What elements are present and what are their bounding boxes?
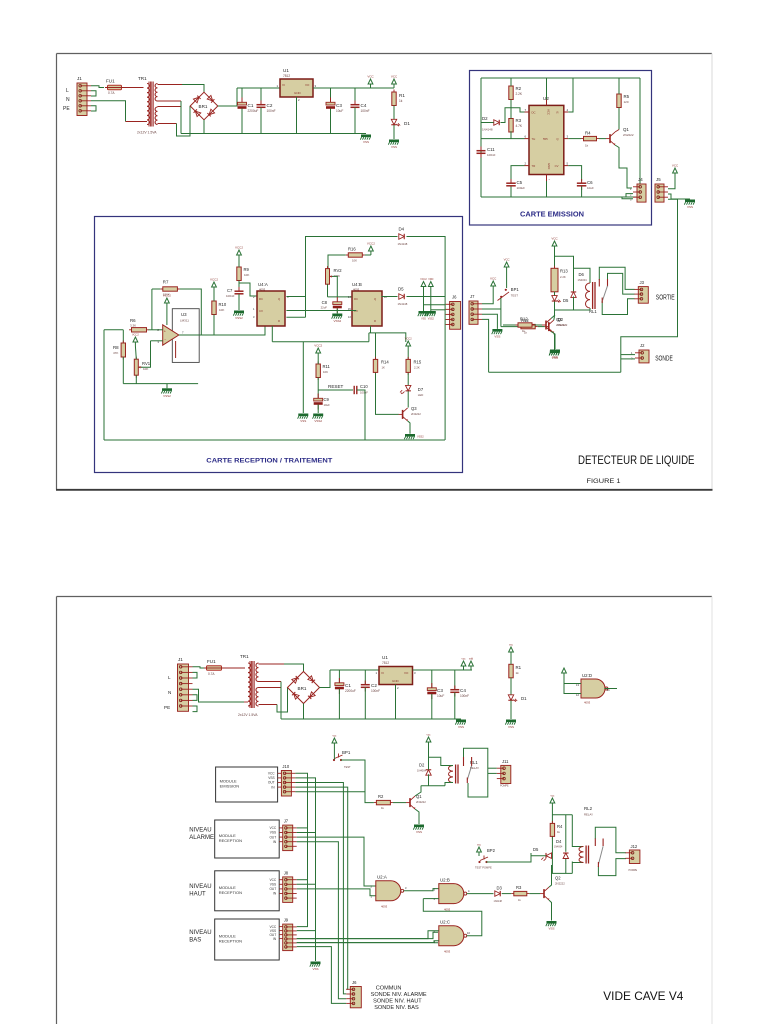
- svg-text:RV1: RV1: [142, 361, 151, 366]
- svg-text:FU1: FU1: [106, 79, 115, 84]
- svg-text:U2:C: U2:C: [440, 920, 450, 925]
- svg-text:J3: J3: [640, 280, 645, 285]
- svg-text:C11: C11: [487, 147, 495, 152]
- svg-text:R6: R6: [130, 318, 136, 323]
- svg-text:L: L: [66, 88, 69, 94]
- svg-text:VCC: VCC: [672, 164, 679, 168]
- svg-text:J9: J9: [284, 918, 289, 923]
- svg-text:VCC: VCC: [391, 75, 398, 79]
- svg-text:VSS: VSS: [270, 883, 276, 887]
- svg-text:VSS: VSS: [416, 830, 422, 834]
- svg-text:U1: U1: [283, 68, 289, 73]
- svg-text:RESET: RESET: [328, 384, 344, 389]
- svg-text:R11: R11: [323, 364, 331, 369]
- svg-text:22uF: 22uF: [321, 306, 328, 310]
- svg-text:R4: R4: [585, 131, 591, 136]
- svg-text:VCC2: VCC2: [235, 246, 243, 250]
- svg-text:VSS: VSS: [548, 927, 554, 931]
- svg-text:R15: R15: [414, 360, 422, 365]
- svg-text:Q3: Q3: [411, 406, 417, 411]
- svg-text:2.2K: 2.2K: [414, 366, 420, 370]
- svg-text:R1: R1: [399, 93, 405, 98]
- svg-text:D2: D2: [482, 116, 488, 121]
- svg-text:2N2222: 2N2222: [556, 323, 566, 327]
- svg-text:POMPE: POMPE: [500, 785, 509, 788]
- svg-text:C10: C10: [360, 384, 368, 389]
- svg-text:2200uF: 2200uF: [248, 109, 259, 113]
- svg-text:VSS: VSS: [687, 205, 693, 209]
- svg-text:VCC: VCC: [504, 258, 510, 262]
- svg-text:VIDE CAVE V4: VIDE CAVE V4: [603, 989, 683, 1003]
- svg-text:FU1: FU1: [207, 659, 216, 664]
- svg-text:VCC2: VCC2: [314, 344, 322, 348]
- svg-text:Q2: Q2: [555, 876, 561, 881]
- svg-text:TR1: TR1: [240, 654, 249, 659]
- svg-text:BR1: BR1: [298, 686, 307, 691]
- svg-text:VCC2: VCC2: [132, 333, 139, 337]
- svg-text:10K: 10K: [219, 308, 224, 312]
- svg-text:VCC2: VCC2: [420, 278, 427, 281]
- svg-text:J6: J6: [352, 980, 357, 985]
- svg-text:R4: R4: [557, 824, 563, 829]
- svg-text:OUT: OUT: [268, 781, 275, 785]
- svg-text:J1: J1: [178, 657, 183, 662]
- svg-text:VSS: VSS: [552, 355, 558, 359]
- svg-text:SONDE NIV. HAUT: SONDE NIV. HAUT: [373, 999, 422, 1005]
- svg-text:NIVEAU: NIVEAU: [189, 930, 211, 936]
- svg-text:DETECTEUR DE LIQUIDE: DETECTEUR DE LIQUIDE: [578, 453, 695, 467]
- svg-text:RECEPTION: RECEPTION: [219, 890, 242, 895]
- svg-text:VCC: VCC: [268, 772, 275, 776]
- svg-text:R7: R7: [163, 280, 169, 285]
- svg-text:7812: 7812: [283, 74, 290, 78]
- svg-text:D4: D4: [556, 839, 562, 844]
- svg-text:1N4004: 1N4004: [554, 846, 563, 849]
- svg-text:10uF: 10uF: [336, 109, 343, 113]
- svg-text:R12: R12: [520, 317, 528, 322]
- svg-text:J4: J4: [638, 177, 643, 182]
- svg-text:CV: CV: [555, 164, 559, 168]
- svg-text:C2: C2: [371, 683, 377, 688]
- svg-text:EMISSION: EMISSION: [220, 784, 240, 789]
- svg-text:R2: R2: [516, 86, 522, 91]
- svg-text:RELAY: RELAY: [584, 813, 593, 817]
- svg-text:J11: J11: [502, 759, 509, 764]
- svg-text:J1: J1: [77, 76, 82, 81]
- svg-text:CARTE EMISSION: CARTE EMISSION: [520, 210, 584, 219]
- svg-text:100uF: 100uF: [517, 186, 526, 190]
- svg-text:GND: GND: [294, 91, 302, 95]
- svg-text:1N4004: 1N4004: [417, 769, 427, 773]
- svg-text:C7: C7: [227, 288, 233, 293]
- svg-text:SONDE NIV. BAS: SONDE NIV. BAS: [374, 1005, 419, 1011]
- svg-text:VSS: VSS: [508, 725, 514, 729]
- svg-text:4093: 4093: [381, 905, 388, 909]
- svg-text:555: 555: [543, 137, 548, 141]
- svg-text:100nF: 100nF: [460, 694, 469, 698]
- svg-text:7812: 7812: [382, 661, 389, 665]
- svg-text:TEST: TEST: [344, 765, 351, 769]
- svg-text:VSS: VSS: [391, 145, 397, 149]
- svg-text:1N4004: 1N4004: [578, 278, 588, 282]
- svg-text:2N2222: 2N2222: [555, 882, 565, 886]
- svg-text:4.7K: 4.7K: [516, 124, 523, 128]
- svg-text:2x12V 1.5VA: 2x12V 1.5VA: [137, 131, 157, 135]
- svg-text:R8: R8: [113, 345, 119, 350]
- svg-text:R9: R9: [244, 267, 250, 272]
- svg-text:U2:D: U2:D: [582, 673, 592, 678]
- svg-text:VSS: VSS: [312, 967, 318, 971]
- svg-text:D5: D5: [398, 287, 404, 292]
- svg-text:TR1: TR1: [138, 76, 147, 81]
- svg-text:D2: D2: [419, 763, 425, 768]
- svg-text:R: R: [278, 319, 280, 323]
- svg-text:BP1: BP1: [342, 750, 351, 755]
- svg-text:R13: R13: [560, 269, 568, 274]
- svg-text:RV2: RV2: [334, 268, 343, 273]
- svg-text:0.7A: 0.7A: [208, 672, 215, 676]
- svg-text:RL2: RL2: [584, 806, 593, 811]
- svg-text:4093: 4093: [444, 950, 451, 954]
- svg-text:RECEPTION: RECEPTION: [219, 838, 242, 843]
- svg-text:D3: D3: [497, 885, 503, 890]
- svg-text:U2:A: U2:A: [377, 875, 387, 880]
- svg-text:D6: D6: [579, 272, 585, 277]
- svg-text:C8: C8: [322, 300, 328, 305]
- svg-text:D4: D4: [399, 227, 405, 232]
- svg-text:VSS: VSS: [363, 140, 369, 144]
- svg-text:VCC: VCC: [490, 277, 497, 281]
- svg-text:D1: D1: [404, 121, 410, 126]
- svg-text:U1: U1: [382, 655, 388, 660]
- svg-text:TH: TH: [532, 137, 536, 141]
- svg-text:VI: VI: [381, 671, 384, 675]
- svg-text:BP1: BP1: [511, 287, 520, 292]
- svg-text:C4: C4: [460, 688, 466, 693]
- svg-text:TEST POMPE: TEST POMPE: [475, 866, 492, 870]
- svg-text:10K: 10K: [244, 273, 249, 277]
- svg-text:Q1: Q1: [623, 127, 629, 132]
- svg-text:VCC2: VCC2: [163, 294, 171, 298]
- svg-text:R10: R10: [219, 302, 227, 307]
- svg-text:RC: RC: [354, 297, 358, 301]
- svg-text:1N4148: 1N4148: [494, 900, 503, 903]
- svg-text:+: +: [164, 330, 166, 334]
- svg-text:D7: D7: [418, 387, 424, 392]
- svg-text:47K: 47K: [113, 351, 118, 355]
- svg-text:J7: J7: [284, 819, 289, 824]
- svg-text:VI: VI: [282, 83, 285, 87]
- svg-text:VO: VO: [305, 83, 310, 87]
- svg-text:BR1: BR1: [199, 104, 208, 109]
- svg-text:U4:A: U4:A: [258, 282, 268, 287]
- svg-text:1N4148: 1N4148: [482, 128, 493, 132]
- svg-text:BP2: BP2: [487, 848, 496, 853]
- svg-text:OUT: OUT: [269, 835, 276, 839]
- svg-text:PE: PE: [63, 106, 70, 112]
- svg-text:NIVEAU: NIVEAU: [189, 884, 211, 890]
- svg-text:BAS: BAS: [189, 937, 201, 943]
- svg-text:GND: GND: [392, 679, 400, 683]
- svg-text:VSS2: VSS2: [428, 318, 435, 321]
- svg-text:J12: J12: [631, 844, 638, 849]
- svg-text:VCC: VCC: [547, 109, 551, 115]
- svg-text:SORTIE: SORTIE: [656, 292, 675, 301]
- svg-text:10K: 10K: [323, 370, 328, 374]
- svg-text:VDD: VDD: [428, 278, 433, 281]
- svg-text:J7: J7: [470, 294, 475, 299]
- svg-text:1k: 1k: [516, 671, 520, 675]
- svg-text:VSS: VSS: [300, 419, 306, 423]
- svg-text:C6: C6: [587, 180, 593, 185]
- svg-text:C9: C9: [324, 397, 330, 402]
- svg-text:10K: 10K: [352, 258, 357, 262]
- svg-text:FIGURE 1: FIGURE 1: [587, 478, 621, 485]
- svg-text:U3: U3: [181, 312, 187, 317]
- svg-text:VSS2: VSS2: [235, 316, 243, 320]
- svg-text:VCC2: VCC2: [210, 278, 218, 282]
- svg-text:VCC: VCC: [367, 75, 374, 79]
- svg-text:vdd: vdd: [469, 657, 474, 661]
- svg-text:NIVEAU: NIVEAU: [189, 828, 211, 834]
- svg-text:RECEPTION: RECEPTION: [219, 939, 242, 944]
- svg-text:R: R: [556, 111, 558, 115]
- svg-text:R3: R3: [516, 118, 522, 123]
- svg-text:VSS: VSS: [494, 335, 500, 339]
- svg-text:VCC2: VCC2: [367, 242, 375, 246]
- svg-text:2N2222: 2N2222: [411, 412, 421, 416]
- svg-text:C5: C5: [517, 180, 523, 185]
- svg-text:1N4148: 1N4148: [398, 302, 408, 306]
- svg-text:VSS: VSS: [421, 318, 426, 321]
- svg-text:1K: 1K: [382, 366, 386, 370]
- svg-text:C3: C3: [437, 688, 443, 693]
- svg-text:−: −: [164, 338, 166, 342]
- svg-text:3.3K: 3.3K: [130, 323, 136, 327]
- svg-text:2.2K: 2.2K: [516, 92, 523, 96]
- svg-text:VSS2: VSS2: [314, 419, 322, 423]
- svg-text:J2: J2: [640, 343, 645, 348]
- svg-text:100nF: 100nF: [267, 109, 276, 113]
- svg-text:LED: LED: [418, 393, 423, 397]
- svg-text:VSS: VSS: [268, 776, 274, 780]
- svg-text:100nF: 100nF: [361, 109, 370, 113]
- svg-text:C1: C1: [345, 683, 351, 688]
- svg-text:10uF: 10uF: [437, 694, 444, 698]
- svg-text:2x12V 1.5VA: 2x12V 1.5VA: [238, 713, 258, 717]
- svg-text:R14: R14: [381, 360, 389, 365]
- svg-text:J5: J5: [656, 177, 661, 182]
- svg-text:VCC2: VCC2: [405, 337, 412, 341]
- svg-text:10uF: 10uF: [324, 403, 331, 407]
- svg-text:R5: R5: [624, 94, 630, 99]
- svg-text:VSS2: VSS2: [417, 435, 424, 439]
- svg-text:VSS2: VSS2: [163, 394, 171, 398]
- svg-text:VSS: VSS: [458, 725, 464, 729]
- svg-text:2.2K: 2.2K: [560, 275, 566, 279]
- svg-text:VCC: VCC: [269, 878, 276, 882]
- svg-text:TEST: TEST: [511, 294, 518, 298]
- svg-text:D5: D5: [563, 298, 569, 303]
- svg-text:R2: R2: [378, 794, 384, 799]
- svg-text:C1: C1: [248, 103, 254, 108]
- svg-text:100nF: 100nF: [487, 153, 496, 157]
- svg-text:HAUT: HAUT: [189, 891, 206, 897]
- svg-text:L: L: [168, 675, 171, 680]
- svg-text:SONDE: SONDE: [655, 353, 673, 362]
- svg-text:J6: J6: [452, 295, 457, 300]
- svg-text:4093: 4093: [584, 701, 591, 705]
- svg-text:2N2222: 2N2222: [416, 800, 426, 804]
- svg-text:120: 120: [624, 100, 629, 104]
- svg-text:POMPE: POMPE: [629, 869, 638, 872]
- svg-text:PE: PE: [164, 705, 170, 710]
- svg-text:1k: 1k: [399, 99, 403, 103]
- svg-text:2N2222: 2N2222: [623, 133, 634, 137]
- svg-text:COMMUN: COMMUN: [376, 986, 402, 992]
- svg-text:R1: R1: [516, 665, 522, 670]
- svg-text:N: N: [66, 97, 70, 103]
- svg-text:CX: CX: [259, 309, 263, 313]
- svg-text:C2: C2: [267, 103, 273, 108]
- svg-text:C3: C3: [336, 103, 342, 108]
- svg-text:C4: C4: [361, 103, 367, 108]
- svg-text:1k: 1k: [585, 144, 589, 148]
- svg-text:RC: RC: [259, 297, 263, 301]
- svg-text:ALARME: ALARME: [189, 835, 214, 841]
- svg-text:DC: DC: [532, 111, 536, 115]
- svg-text:CARTE RECEPTION / TRAITEMENT: CARTE RECEPTION / TRAITEMENT: [206, 458, 332, 465]
- svg-text:R3: R3: [516, 885, 522, 890]
- svg-text:R: R: [374, 319, 376, 323]
- svg-text:VO: VO: [404, 671, 409, 675]
- svg-text:LM311: LM311: [180, 319, 189, 323]
- svg-text:U4:B: U4:B: [352, 282, 362, 287]
- svg-text:N: N: [168, 690, 171, 695]
- svg-text:VSS2: VSS2: [333, 319, 341, 323]
- svg-text:10uF: 10uF: [587, 186, 594, 190]
- svg-text:D1: D1: [521, 696, 527, 701]
- svg-text:GND: GND: [547, 163, 551, 169]
- svg-text:VSS: VSS: [270, 831, 276, 835]
- svg-text:TR: TR: [532, 164, 536, 168]
- svg-text:VCC: VCC: [269, 826, 276, 830]
- svg-text:0.7A: 0.7A: [108, 91, 115, 95]
- svg-text:SONDE NIV. ALARME: SONDE NIV. ALARME: [371, 992, 427, 998]
- svg-text:OUT: OUT: [269, 887, 276, 891]
- svg-text:Q2: Q2: [556, 317, 562, 322]
- svg-text:J10: J10: [282, 764, 289, 769]
- svg-text:VCC: VCC: [551, 237, 558, 241]
- svg-text:D5: D5: [533, 847, 539, 852]
- svg-text:R16: R16: [348, 246, 356, 251]
- svg-text:1N4148: 1N4148: [398, 242, 408, 246]
- svg-text:U2:B: U2:B: [440, 878, 450, 883]
- svg-text:2200uF: 2200uF: [345, 689, 356, 693]
- svg-text:J8: J8: [284, 870, 289, 875]
- svg-text:100nF: 100nF: [226, 294, 235, 298]
- svg-text:100nF: 100nF: [371, 689, 380, 693]
- svg-text:100nF: 100nF: [360, 391, 368, 395]
